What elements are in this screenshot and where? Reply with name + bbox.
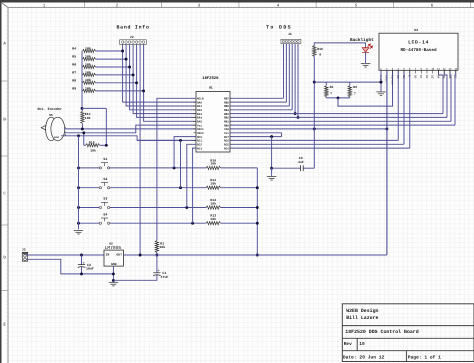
svg-text:W2EB Design: W2EB Design xyxy=(346,308,378,314)
svg-text:RB2: RB2 xyxy=(224,117,229,120)
svg-text:S5: S5 xyxy=(49,113,53,117)
svg-text:RA1: RA1 xyxy=(197,105,202,108)
wire J2 pin2 to U1 RA1 xyxy=(126,44,196,106)
svg-text:RS: RS xyxy=(396,75,399,79)
svg-text:U1: U1 xyxy=(209,85,213,89)
sheet column labels xyxy=(85,3,471,8)
svg-text:18F2520: 18F2520 xyxy=(202,76,219,81)
connector J3 xyxy=(22,248,28,262)
wire J2 pin5 to U1 RA4 xyxy=(137,44,196,117)
microcontroller U1 18F2520 xyxy=(196,92,230,153)
wire bus to R15 top xyxy=(82,107,106,109)
svg-text:RC5: RC5 xyxy=(224,143,229,146)
+5 rail to LCD xyxy=(314,81,381,83)
svg-text:R2: R2 xyxy=(330,85,334,89)
wire U1 RC0 to S1 xyxy=(174,137,196,168)
svg-text:RA3: RA3 xyxy=(197,113,202,116)
svg-text:Page: 1 of 1: Page: 1 of 1 xyxy=(408,354,441,360)
wire +5 vertical xyxy=(313,82,315,129)
svg-text:J2: J2 xyxy=(130,35,134,39)
svg-text:IN: IN xyxy=(106,253,110,257)
svg-text:+: + xyxy=(83,261,85,265)
svg-text:?: ? xyxy=(330,91,332,95)
wire encoder A to U1 OSC1 xyxy=(65,128,196,130)
LED backlight xyxy=(362,44,372,52)
svg-text:Vss: Vss xyxy=(197,124,202,127)
node encoder gnd tap xyxy=(77,134,80,137)
node dropper 1 xyxy=(179,186,182,189)
wire J2 pin4 to U1 RA3 xyxy=(133,44,196,113)
svg-text:Vss: Vss xyxy=(224,132,229,135)
svg-text:10k: 10k xyxy=(160,245,166,249)
svg-text:To DDS: To DDS xyxy=(266,25,292,31)
svg-text:10k: 10k xyxy=(85,116,91,120)
capacitor C1 47uF xyxy=(156,255,158,273)
wire S2 right to R11 row xyxy=(110,187,206,189)
svg-text:S1: S1 xyxy=(103,157,107,161)
svg-text:R9: R9 xyxy=(72,86,76,90)
svg-text:.1uF: .1uF xyxy=(296,160,304,164)
svg-text:MCLR: MCLR xyxy=(197,97,204,100)
svg-text:S2: S2 xyxy=(103,177,107,181)
svg-text:18F2520 DDS Control Board: 18F2520 DDS Control Board xyxy=(345,329,418,335)
svg-text:D3: D3 xyxy=(431,75,434,79)
wire S1 left to gnd bus xyxy=(79,167,100,169)
svg-text:D2: D2 xyxy=(425,75,428,79)
svg-text:R7: R7 xyxy=(72,70,76,74)
wire R2R3 bottoms to LCD Cursor xyxy=(326,97,350,99)
svg-text:Bill Lazure: Bill Lazure xyxy=(346,315,378,321)
svg-text:RA0: RA0 xyxy=(197,101,202,104)
svg-text:Backlight: Backlight xyxy=(350,37,374,43)
wire LCD Gnd pin xyxy=(380,70,382,91)
rotary encoder S5 xyxy=(41,117,64,141)
wire S1 right to R10 row xyxy=(110,167,206,169)
svg-text:?: ? xyxy=(354,91,356,95)
wire U1 RB6 row xyxy=(230,101,286,103)
wire U1 RC3 to S4 xyxy=(193,148,196,223)
wire U1 RB5 row xyxy=(230,105,289,107)
svg-text:D1: D1 xyxy=(419,75,422,79)
svg-text:S3: S3 xyxy=(103,197,107,201)
svg-text:Band Info: Band Info xyxy=(117,25,150,31)
title block frame xyxy=(342,304,474,362)
wire J2 pin6 +5V down xyxy=(139,44,141,255)
svg-text:RC6: RC6 xyxy=(224,140,229,143)
svg-text:RC4: RC4 xyxy=(224,147,229,150)
svg-text:10k: 10k xyxy=(210,182,216,186)
svg-text:D6: D6 xyxy=(448,75,451,79)
wire encoder B jog to U1 RC1 row xyxy=(61,136,196,141)
ground C3 xyxy=(271,168,273,176)
wire U1 RB0 to LCD D7 xyxy=(230,124,455,126)
wire U2 OUT +5 run xyxy=(123,254,387,256)
resistor R14 10k xyxy=(81,108,83,111)
svg-text:RD-44780-Based: RD-44780-Based xyxy=(400,47,437,53)
svg-text:Cursor: Cursor xyxy=(390,75,393,86)
wire J2 pin1 to U1 RA0 xyxy=(123,44,196,102)
svg-text:RB7: RB7 xyxy=(224,97,229,100)
svg-text:RC7: RC7 xyxy=(224,136,229,139)
svg-text:R3: R3 xyxy=(353,85,357,89)
svg-text:R6: R6 xyxy=(72,63,76,67)
svg-text:OUT: OUT xyxy=(116,253,122,257)
svg-text:RB4: RB4 xyxy=(224,109,229,112)
wire U1 RC2 to S3 xyxy=(187,144,196,207)
svg-text:S4: S4 xyxy=(103,212,107,216)
svg-text:RC2: RC2 xyxy=(197,143,202,146)
wire +5 up right xyxy=(386,70,388,255)
svg-text:R4: R4 xyxy=(72,47,76,51)
capacitor C2 10uF xyxy=(80,254,83,257)
ground LED xyxy=(361,63,370,67)
svg-text:Gnd: Gnd xyxy=(54,136,59,139)
sheet row labels xyxy=(2,81,9,291)
wire U1 RB1 to LCD D6 xyxy=(230,120,451,122)
wire U1 RC4 to LCD E xyxy=(230,147,410,149)
svg-text:LCD-14: LCD-14 xyxy=(408,40,429,46)
svg-text:E: E xyxy=(408,75,411,77)
wire J1 pin5 to U1 RB3 xyxy=(294,44,296,114)
svg-text:RB6: RB6 xyxy=(224,101,229,104)
LCD module U3 xyxy=(379,33,458,70)
wire J1 pin1 to U1 RB7 xyxy=(283,44,285,99)
wire MCLR pullup riser xyxy=(157,98,196,240)
ground switches xyxy=(74,230,83,234)
svg-text:RB5: RB5 xyxy=(224,105,229,108)
wire RC7 dropper to C3 xyxy=(271,137,273,169)
wire S4 right to R13 row xyxy=(110,222,206,224)
svg-text:RB3: RB3 xyxy=(224,113,229,116)
node dropper 2 xyxy=(185,206,188,209)
wire U1 Vdd to +5 xyxy=(230,128,387,130)
wire encoder C to U1 OSC2 (step up to Vss) xyxy=(65,125,196,133)
svg-text:LM7805: LM7805 xyxy=(105,245,122,251)
wire U1 RC6 to LCD RS xyxy=(230,139,398,141)
wire U1 RB3 to LCD D4 xyxy=(230,113,443,115)
svg-text:R16: R16 xyxy=(317,47,323,51)
wire J3 pin2 to ground run xyxy=(26,259,113,274)
svg-text:RB0: RB0 xyxy=(224,124,229,127)
wire J1 pin6 to U1 RB2 xyxy=(297,44,299,118)
wire U1 RC7 row xyxy=(230,136,282,138)
svg-text:RC0: RC0 xyxy=(197,136,202,139)
R10-R13 bus to +5 xyxy=(256,168,258,255)
wire +5 branch down to C3 xyxy=(313,129,315,168)
wire S4 left to gnd bus xyxy=(79,222,100,224)
svg-text:Rev: Rev xyxy=(344,342,352,347)
svg-text:U2: U2 xyxy=(109,241,113,245)
svg-text:RA2: RA2 xyxy=(197,109,202,112)
svg-text:RB1: RB1 xyxy=(224,120,229,123)
svg-text:OSC2: OSC2 xyxy=(197,132,204,135)
svg-text:RC3: RC3 xyxy=(197,147,202,150)
wire LED to ground xyxy=(365,52,367,63)
ground U2 xyxy=(109,282,118,286)
node bus/R14/R15 xyxy=(81,107,84,110)
wire LCD 5vdc pin to +5 run xyxy=(386,70,388,255)
svg-text:Vdd: Vdd xyxy=(224,127,229,131)
wire U1 Vss jog xyxy=(230,132,282,134)
svg-text:10: 10 xyxy=(359,341,365,347)
wire U1 RC5 to LCD RW xyxy=(230,143,404,145)
U3 pin stubs, numbers and labels xyxy=(381,70,456,73)
svg-text:10k: 10k xyxy=(210,217,216,221)
wire J3 to U2 IN xyxy=(26,254,104,256)
svg-text:RW: RW xyxy=(402,75,405,79)
wire U2 GND down xyxy=(112,266,114,282)
svg-text:10uF: 10uF xyxy=(86,267,94,271)
svg-text:Rot. Encoder: Rot. Encoder xyxy=(38,107,62,112)
svg-text:D4: D4 xyxy=(436,75,439,79)
pullup bus xyxy=(81,51,83,108)
resistor R1 10k xyxy=(155,241,158,253)
svg-text:10k: 10k xyxy=(210,162,216,166)
wire U1 RB2 to LCD D5 xyxy=(230,116,447,118)
svg-text:D7: D7 xyxy=(454,75,457,79)
svg-text:J3: J3 xyxy=(22,248,26,252)
node dropper 0 xyxy=(173,166,176,169)
svg-text:0: 0 xyxy=(319,52,321,56)
svg-text:+: + xyxy=(158,269,160,273)
svg-text:J1: J1 xyxy=(288,32,292,36)
svg-text:RA5: RA5 xyxy=(197,120,202,123)
ground LCD xyxy=(376,92,385,96)
svg-text:10k: 10k xyxy=(210,201,216,205)
svg-text:R5: R5 xyxy=(72,55,76,59)
svg-text:RC1: RC1 xyxy=(197,140,202,143)
wire U1 RB4 row xyxy=(230,109,292,111)
wire S2 left to gnd bus xyxy=(79,187,100,189)
wire J2 pin3 to U1 RA2 xyxy=(130,44,196,109)
connector J2 xyxy=(120,35,147,44)
wire R15 right riser xyxy=(105,108,107,145)
svg-text:RA4: RA4 xyxy=(197,117,202,120)
svg-text:U3: U3 xyxy=(414,28,418,32)
wire U1 RC1 to S2 xyxy=(137,139,180,141)
U1 pin stubs and labels xyxy=(193,98,232,148)
node dropper 3 xyxy=(191,222,194,225)
voltage regulator U2 LM7805 xyxy=(104,250,123,266)
svg-text:Date: 20 Jun 12: Date: 20 Jun 12 xyxy=(343,354,385,360)
svg-text:D0: D0 xyxy=(413,75,416,79)
switch ground bus xyxy=(78,136,80,230)
svg-text:10k: 10k xyxy=(90,149,96,153)
wire J1 pin4 to U1 RB4 xyxy=(291,44,293,110)
svg-text:GND: GND xyxy=(111,262,117,266)
wire J2 pin7 to U1 RA5 xyxy=(144,44,196,121)
svg-text:D5: D5 xyxy=(442,75,445,79)
wire J1 pin3 to U1 RB5 xyxy=(288,44,290,106)
wire U1 RB7 row xyxy=(230,97,284,99)
svg-text:OSC1: OSC1 xyxy=(197,128,204,131)
svg-text:R8: R8 xyxy=(72,78,76,82)
connector J1 xyxy=(281,32,301,44)
svg-text:47uF: 47uF xyxy=(161,275,169,279)
wire S3 right to R12 row xyxy=(110,207,206,209)
wire J1 pin2 to U1 RB6 xyxy=(285,44,287,102)
wire S3 left to gnd bus xyxy=(79,207,100,209)
